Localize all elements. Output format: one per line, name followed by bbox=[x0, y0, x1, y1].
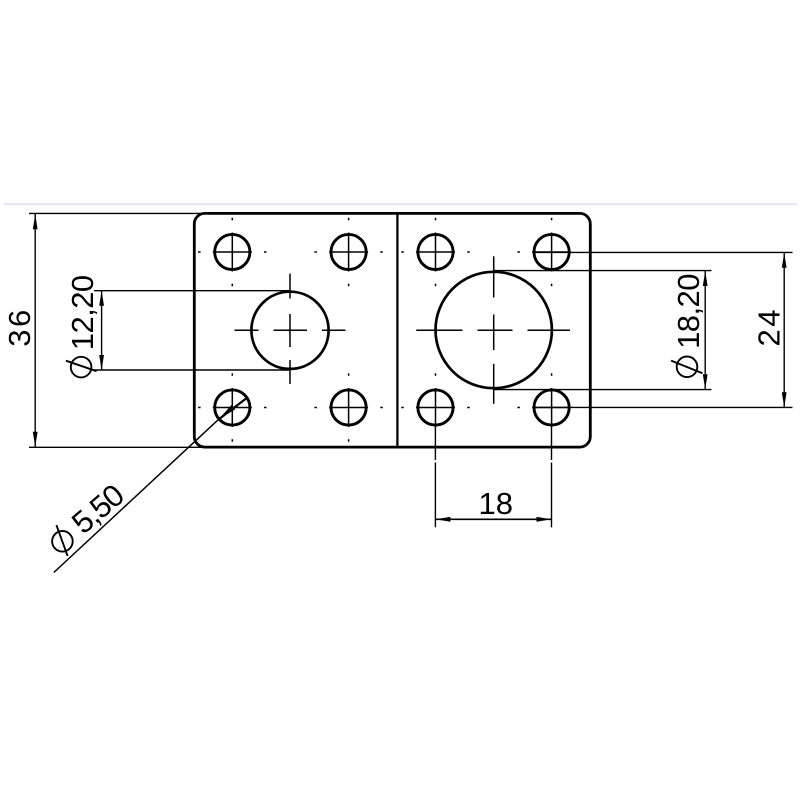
dimension dia 12,20 bbox=[94, 291, 290, 370]
plate outline bbox=[194, 213, 590, 447]
crosshair H1 bbox=[198, 218, 266, 286]
hole H3 bbox=[418, 234, 453, 269]
crosshair H2 bbox=[314, 218, 382, 286]
leader dia 5,50 bbox=[54, 398, 247, 573]
dia symbol for 5,50 bbox=[52, 525, 73, 556]
hole H4 bbox=[534, 234, 569, 269]
left bore circle bbox=[251, 292, 328, 369]
crosshair H4 bbox=[517, 218, 571, 286]
left bore centerlines bbox=[235, 274, 346, 384]
svg-text:12,20: 12,20 bbox=[65, 275, 100, 350]
dimension dia 18,20 bbox=[494, 271, 712, 390]
hole H5 bottom-left bbox=[215, 390, 250, 425]
hole H8 bbox=[534, 390, 569, 425]
hole H2 bbox=[331, 234, 366, 269]
crosshair H3 bbox=[401, 218, 469, 286]
svg-text:18,20: 18,20 bbox=[671, 274, 706, 349]
dimension 36 bbox=[29, 213, 204, 447]
dia symbol for 18,20 bbox=[671, 357, 702, 378]
crosshair H8 bbox=[517, 373, 571, 427]
faint blue rule bbox=[4, 203, 797, 205]
right bore circle bbox=[436, 272, 552, 388]
hole H7 bbox=[418, 390, 453, 425]
svg-text:18: 18 bbox=[479, 486, 513, 521]
crosshair H5 bbox=[198, 373, 266, 441]
dia symbol for 12,20 bbox=[66, 357, 97, 378]
right bore centerlines bbox=[416, 256, 570, 404]
hole H1 top-left bbox=[215, 234, 570, 425]
plate mid line bbox=[396, 215, 398, 446]
crosshair H7 bbox=[401, 373, 469, 427]
crosshair H6 bbox=[314, 373, 382, 441]
dimension 24 bbox=[534, 252, 793, 407]
dimension 18 bbox=[435, 427, 551, 528]
svg-text:36: 36 bbox=[2, 307, 37, 346]
svg-text:24: 24 bbox=[752, 307, 787, 346]
hole H6 bbox=[331, 390, 366, 425]
